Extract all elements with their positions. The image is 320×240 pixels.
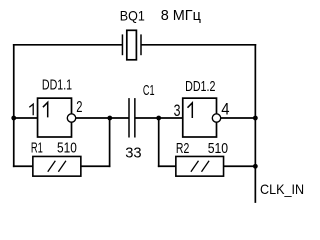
wire R1 left xyxy=(13,165,33,167)
wire right vertical xyxy=(254,44,256,203)
svg-text:510: 510 xyxy=(57,140,77,157)
gate DD1.2 xyxy=(183,98,221,137)
wire top rail left segment xyxy=(13,44,123,46)
pin 1 label xyxy=(29,104,33,115)
svg-text:2: 2 xyxy=(76,98,82,115)
svg-text:C1: C1 xyxy=(143,82,155,99)
svg-text:510: 510 xyxy=(208,140,228,157)
svg-text:R2: R2 xyxy=(176,140,189,157)
gate DD1.1 function label 1 xyxy=(43,102,48,117)
svg-text:BQ1: BQ1 xyxy=(120,7,145,23)
wire C1 to pin 3 xyxy=(135,117,183,119)
wire pin 2 to C1 xyxy=(76,117,129,119)
gate DD1.1 xyxy=(38,98,76,137)
node junction pin4 right xyxy=(253,116,258,121)
svg-text:CLK_IN: CLK_IN xyxy=(260,181,304,197)
svg-text:DD1.2: DD1.2 xyxy=(185,78,215,95)
wire R1 right xyxy=(81,165,111,167)
node junction pin2 xyxy=(107,116,112,121)
wire pin 1 xyxy=(14,117,38,119)
node junction clk xyxy=(253,164,258,169)
capacitor C1 xyxy=(129,98,135,137)
svg-text:4: 4 xyxy=(221,101,230,119)
crystal BQ1 xyxy=(122,30,141,60)
wire pin 4 xyxy=(221,117,256,119)
svg-text:33: 33 xyxy=(125,144,141,161)
gate DD1.2 function label 1 xyxy=(188,103,193,118)
svg-text:R1: R1 xyxy=(31,140,43,157)
resistor R1 xyxy=(33,156,81,176)
wire R2 right xyxy=(224,165,257,167)
node junction left xyxy=(11,116,16,121)
svg-text:8 МГц: 8 МГц xyxy=(161,7,202,24)
svg-text:3: 3 xyxy=(174,102,181,120)
wire R2 left vertical xyxy=(158,118,160,167)
wire R2 left xyxy=(158,165,176,167)
wire top rail right segment xyxy=(141,44,256,46)
node junction pin3 xyxy=(156,116,161,121)
wire R1 right vertical xyxy=(109,118,111,167)
svg-text:DD1.1: DD1.1 xyxy=(42,77,72,94)
resistor R2 xyxy=(176,156,224,176)
wire left vertical xyxy=(13,44,15,167)
